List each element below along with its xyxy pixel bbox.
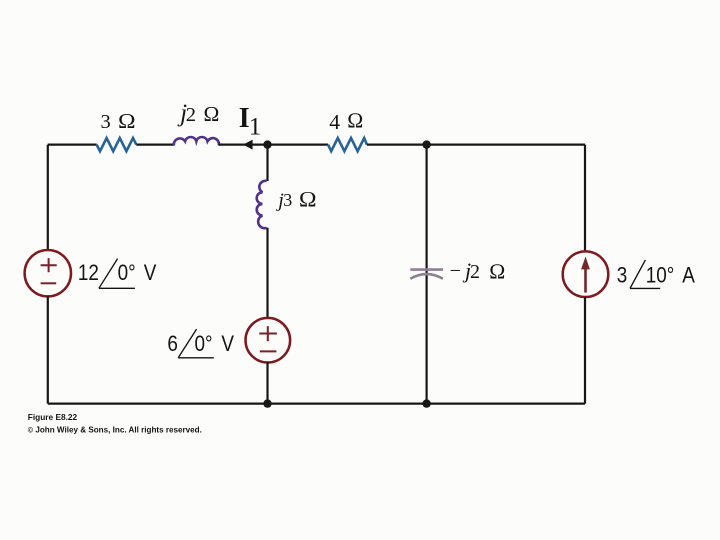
- node D dot: [422, 399, 430, 407]
- middle branch wire mid: [266, 228, 268, 319]
- angle symbol for 3A: [630, 260, 660, 289]
- right wire upper: [584, 145, 586, 252]
- inductor L2 j3ohm vertical: [257, 181, 267, 228]
- svg-text:Ω: Ω: [299, 187, 317, 211]
- svg-text:12: 12: [78, 261, 99, 286]
- left wire lower: [47, 296, 49, 403]
- svg-text:10°: 10°: [646, 263, 675, 288]
- node B dot: [422, 140, 430, 148]
- wire top-left horizontal: [48, 144, 97, 146]
- wire between R1 and L1: [136, 144, 174, 146]
- svg-text:Ω: Ω: [203, 102, 219, 126]
- svg-text:V: V: [221, 332, 234, 357]
- label j2 ohm: [177, 100, 220, 127]
- bottom wire: [48, 403, 585, 405]
- svg-text:−: −: [450, 260, 461, 282]
- svg-text:V: V: [144, 261, 157, 286]
- svg-text:Ω: Ω: [489, 259, 506, 283]
- voltage source V2 6V circle: [245, 318, 290, 363]
- svg-text:4: 4: [329, 110, 340, 134]
- capacitor C1 bottom plate: [410, 274, 443, 279]
- voltage source V1 12V circle: [25, 250, 71, 296]
- capacitor branch wire: [426, 145, 428, 404]
- angle symbol for 6V: [178, 329, 214, 358]
- svg-text:6: 6: [167, 332, 178, 357]
- capacitor C1 top plate: [410, 268, 443, 271]
- svg-text:0°: 0°: [118, 261, 136, 286]
- label 6/0deg V: [167, 332, 234, 357]
- right wire lower: [584, 297, 586, 404]
- label 3/10deg A: [617, 263, 695, 288]
- inductor L1 j2ohm: [174, 137, 219, 146]
- V1 plus: [41, 258, 57, 272]
- V2 plus: [259, 326, 277, 341]
- node C dot: [263, 399, 271, 407]
- svg-text:3: 3: [101, 111, 111, 133]
- svg-text:1: 1: [249, 114, 262, 141]
- V2 minus: [260, 350, 277, 352]
- label 4 ohm: [329, 109, 363, 134]
- svg-text:© John Wiley & Sons, Inc. All: © John Wiley & Sons, Inc. All rights res…: [28, 425, 202, 434]
- label 3 ohm: [101, 109, 136, 133]
- svg-text:Figure E8.22: Figure E8.22: [28, 412, 78, 422]
- label j3 ohm: [275, 187, 317, 211]
- svg-text:3: 3: [617, 263, 628, 288]
- wire node A to R2: [268, 144, 329, 146]
- label 12/0deg V: [78, 261, 157, 286]
- middle branch wire top: [266, 145, 268, 181]
- label -j2 ohm: [450, 258, 506, 283]
- node A dot: [263, 140, 271, 148]
- wire from L1 to node A: [219, 144, 268, 146]
- label I1: [239, 103, 262, 141]
- wire R2 to node B to top-right corner: [367, 144, 585, 146]
- current source I2 circle: [563, 251, 609, 297]
- resistor R2 4ohm: [328, 138, 367, 151]
- svg-text:0°: 0°: [195, 332, 213, 357]
- left wire upper: [47, 145, 49, 250]
- svg-text:Ω: Ω: [347, 109, 364, 133]
- middle branch wire bottom: [266, 362, 268, 404]
- svg-text:Ω: Ω: [118, 109, 136, 133]
- resistor R1 3ohm: [97, 138, 137, 151]
- V1 minus: [41, 282, 57, 284]
- svg-text:2: 2: [186, 104, 196, 126]
- svg-text:A: A: [682, 263, 695, 288]
- svg-text:2: 2: [470, 261, 480, 283]
- angle symbol for 12V: [99, 259, 135, 289]
- svg-text:3: 3: [283, 190, 292, 210]
- current arrow I1: [243, 140, 252, 150]
- I2 arrow: [584, 268, 587, 293]
